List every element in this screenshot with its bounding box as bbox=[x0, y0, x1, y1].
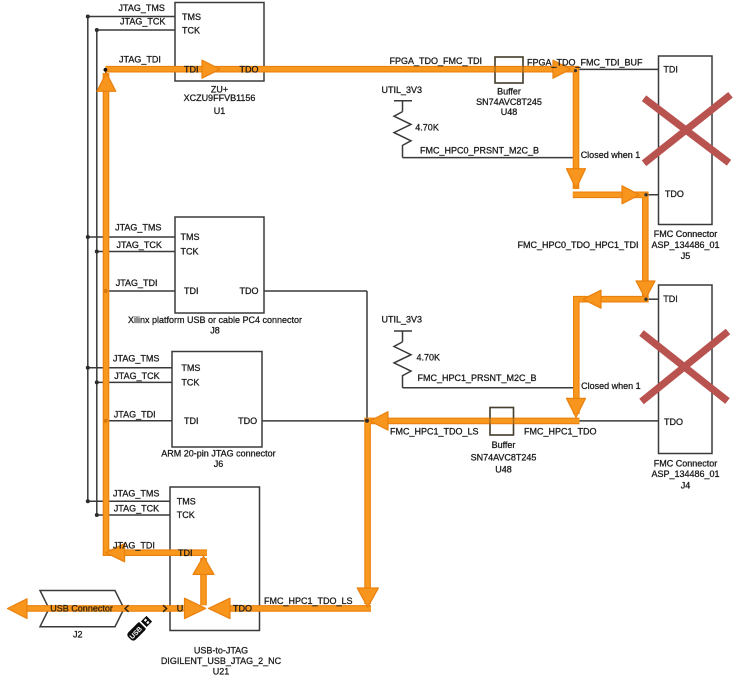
power symbol UTIL_3V3 (top) bbox=[394, 101, 412, 112]
svg-text:UTIL_3V3: UTIL_3V3 bbox=[382, 85, 423, 95]
svg-text:ASP_134486_01: ASP_134486_01 bbox=[651, 469, 719, 479]
node small dots at J5/J4 pin corners bbox=[574, 69, 648, 301]
svg-text:FMC_HPC1_TDO: FMC_HPC1_TDO bbox=[524, 426, 597, 436]
label UTIL_3V3 bottom bbox=[382, 315, 423, 325]
node TCK bus junction dots bbox=[95, 28, 99, 517]
wire JTAG_TMS to J6 bbox=[88, 367, 172, 369]
wire JTAG_TCK to U1 bbox=[97, 29, 175, 31]
arrowhead up at top of JTAG_TDI bus bbox=[97, 73, 116, 92]
svg-text:TDI: TDI bbox=[184, 416, 199, 426]
arrowhead down toward J5 TDO row bbox=[567, 169, 586, 189]
svg-text:U1: U1 bbox=[214, 106, 226, 116]
label FMC_HPC0_TDO_HPC1_TDI bbox=[517, 240, 638, 250]
svg-text:TDI: TDI bbox=[184, 65, 199, 75]
svg-text:FMC_HPC1_PRSNT_M2C_B: FMC_HPC1_PRSNT_M2C_B bbox=[418, 373, 537, 383]
connector J2 USB off-page symbol bbox=[40, 591, 124, 627]
block U21 USB-to-JTAG bbox=[170, 487, 260, 631]
wire FMC_HPC1_PRSNT_M2C_B bbox=[403, 387, 579, 389]
svg-text:TDO: TDO bbox=[664, 417, 683, 427]
node TDI bus junction dots (over orange) bbox=[104, 289, 108, 423]
svg-text:JTAG_TDI: JTAG_TDI bbox=[116, 278, 158, 288]
label buffer U48 bottom caption bbox=[471, 440, 537, 474]
svg-text:TDO: TDO bbox=[233, 604, 252, 614]
arrowhead right from J2 into U21 bbox=[185, 598, 206, 618]
label FMC_HPC1_TDO_LS (mid row) bbox=[390, 426, 479, 436]
wire JTAG_TDI to U1 bbox=[106, 68, 175, 70]
label 4.70K bottom bbox=[417, 353, 441, 363]
svg-text:TDO: TDO bbox=[240, 65, 259, 75]
label JTAG_TCK nets bbox=[114, 17, 166, 514]
block J8 Xilinx platform connector bbox=[175, 217, 264, 313]
svg-text:JTAG_TCK: JTAG_TCK bbox=[117, 240, 162, 250]
svg-text:Closed when 1: Closed when 1 bbox=[581, 381, 641, 391]
svg-text:4.70K: 4.70K bbox=[417, 353, 441, 363]
pin labels J8 bbox=[181, 232, 259, 296]
pin TDI/USB/TDO U21 over orange bbox=[177, 548, 252, 614]
svg-text:TDI: TDI bbox=[184, 286, 199, 296]
icon USB stick bbox=[126, 615, 153, 642]
wire JTAG_TMS bus vertical bbox=[87, 17, 89, 502]
wire J5 TDO stub bbox=[640, 194, 659, 196]
label JTAG_TMS nets bbox=[113, 3, 165, 498]
arrowhead left on J4 TDI row bbox=[583, 290, 601, 308]
label Closed when 1 (bottom) bbox=[581, 381, 641, 391]
node TDI top corner dot bbox=[104, 68, 108, 72]
wire JTAG_TCK to U21 bbox=[97, 514, 170, 516]
svg-text:TMS: TMS bbox=[181, 232, 200, 242]
label J5 caption bbox=[651, 229, 719, 261]
wire JTAG_TMS to U21 bbox=[88, 500, 170, 502]
svg-text:TDO: TDO bbox=[238, 416, 257, 426]
svg-text:JTAG_TMS: JTAG_TMS bbox=[113, 354, 159, 364]
svg-text:J4: J4 bbox=[681, 480, 691, 490]
wire J6 TDO / FMC_HPC1_TDO row to J4 TDO bbox=[262, 420, 659, 422]
buffer U48 top edge overlay bbox=[495, 57, 523, 83]
label UTIL_3V3 top bbox=[382, 85, 423, 95]
svg-text:XCZU9FFVB1156: XCZU9FFVB1156 bbox=[184, 93, 256, 103]
svg-text:TCK: TCK bbox=[177, 510, 195, 520]
svg-text:TMS: TMS bbox=[181, 363, 200, 373]
wire orange bottom row right segment bbox=[230, 605, 372, 612]
label J2 bbox=[73, 630, 83, 640]
arrowhead right into J5 TDO bbox=[622, 186, 639, 204]
label Closed when 1 (top) bbox=[581, 150, 641, 160]
wire J4 TDI stub bbox=[644, 298, 659, 300]
svg-text:Closed when 1: Closed when 1 bbox=[581, 150, 641, 160]
svg-text:FMC_HPC1_TDO_LS: FMC_HPC1_TDO_LS bbox=[264, 596, 353, 606]
wire orange U21 TDI row and long bus up to U1 bbox=[106, 73, 207, 553]
wire orange U1 TDI/TDO row and down at J5 bbox=[106, 69, 577, 189]
buffer U48 top (under highlight) bbox=[495, 57, 523, 83]
block J4 FMC Connector bbox=[659, 285, 713, 454]
svg-text:J2: J2 bbox=[73, 630, 83, 640]
arrowhead down into FMC_HPC1_TDO row bbox=[567, 398, 586, 417]
X mark over J5 bbox=[644, 95, 731, 164]
label J8 caption bbox=[128, 315, 302, 335]
svg-text:JTAG_TCK: JTAG_TCK bbox=[114, 371, 159, 381]
label U21 caption bbox=[161, 645, 282, 676]
svg-text:TCK: TCK bbox=[181, 247, 199, 257]
wire JTAG_TCK bus vertical bbox=[96, 30, 98, 515]
wire JTAG_TCK to J6 bbox=[97, 381, 172, 383]
svg-text:J6: J6 bbox=[214, 459, 224, 469]
svg-text:U48: U48 bbox=[495, 465, 512, 475]
wire JTAG_TDI to U21 bbox=[106, 552, 170, 554]
wire JTAG_TMS to U1 bbox=[88, 16, 175, 18]
block U1 ZU+ XCZU9FFVB1156 bbox=[175, 3, 264, 82]
power symbol UTIL_3V3 (bottom) bbox=[394, 331, 412, 342]
block J6 ARM 20-pin JTAG connector bbox=[172, 352, 262, 448]
svg-text:JTAG_TCK: JTAG_TCK bbox=[120, 17, 165, 27]
svg-text:USB-to-JTAG: USB-to-JTAG bbox=[194, 645, 248, 655]
label FMC_HPC0_PRSNT_M2C_B bbox=[420, 146, 539, 156]
svg-text:TCK: TCK bbox=[182, 25, 200, 35]
buffer U48 bottom edge overlay bbox=[490, 408, 514, 436]
svg-text:J5: J5 bbox=[681, 251, 691, 261]
label 4.70K top bbox=[415, 123, 439, 133]
node TMS bus junction dots bbox=[86, 15, 90, 504]
svg-text:TDO: TDO bbox=[665, 189, 684, 199]
wire orange J5 TDO row and down to J4 bbox=[573, 195, 646, 297]
arrowhead down into J4 TDI row bbox=[636, 281, 655, 299]
svg-text:TDO: TDO bbox=[240, 286, 259, 296]
svg-text:DIGILENT_USB_JTAG_2_NC: DIGILENT_USB_JTAG_2_NC bbox=[161, 656, 282, 666]
svg-text:FMC_HPC1_TDO_LS: FMC_HPC1_TDO_LS bbox=[390, 426, 479, 436]
label FPGA_TDO_FMC_TDI_BUF bbox=[527, 57, 643, 67]
wire JTAG_TDI bus vertical bbox=[105, 69, 107, 553]
pin labels U21 bbox=[177, 496, 196, 520]
label FPGA_TDO_FMC_TDI bbox=[390, 56, 483, 66]
pin labels U1 bbox=[182, 12, 201, 36]
arrowhead left into TDO junction bbox=[370, 412, 388, 430]
wire JTAG_TMS to J8 bbox=[88, 236, 175, 238]
svg-text:SN74AVC8T245: SN74AVC8T245 bbox=[471, 452, 537, 462]
wire orange U21 internal vertical bbox=[200, 558, 207, 605]
svg-text:UTIL_3V3: UTIL_3V3 bbox=[382, 315, 423, 325]
wire JTAG_TDI to J6 bbox=[106, 420, 172, 422]
pin chevron at J2 tip bbox=[125, 605, 129, 612]
svg-text:Buffer: Buffer bbox=[497, 86, 521, 96]
svg-text:ASP_134486_01: ASP_134486_01 bbox=[651, 240, 719, 250]
wire orange J4 TDI row and down to TDO row bbox=[576, 299, 648, 414]
svg-text:JTAG_TDI: JTAG_TDI bbox=[119, 55, 161, 65]
svg-text:JTAG_TMS: JTAG_TMS bbox=[115, 223, 161, 233]
arrowhead down into U21 TDO row bbox=[357, 588, 378, 607]
wire TDO junction vertical bbox=[366, 291, 368, 608]
svg-text:U48: U48 bbox=[501, 107, 518, 117]
resistor 4.70K (bottom) bbox=[394, 342, 411, 388]
resistor 4.70K (top) bbox=[394, 112, 411, 158]
svg-text:TMS: TMS bbox=[182, 12, 201, 22]
arrowhead right at FPGA_TDO_FMC_TDI_BUF corner bbox=[553, 60, 571, 78]
label FMC_HPC1_TDO bbox=[524, 426, 597, 436]
label USB Connector inside J2 bbox=[50, 604, 113, 614]
svg-text:FMC Connector: FMC Connector bbox=[654, 229, 718, 239]
svg-text:SN74AVC8T245: SN74AVC8T245 bbox=[476, 97, 542, 107]
pin labels J5 bbox=[663, 65, 684, 199]
svg-text:Buffer: Buffer bbox=[492, 440, 516, 450]
label J6 caption bbox=[161, 449, 275, 469]
label buffer U48 top caption bbox=[476, 86, 542, 117]
wire orange FMC_HPC1_TDO row leftward and down junction bbox=[368, 421, 580, 604]
arrowhead up inside U21 to TDI bbox=[193, 556, 214, 574]
pin labels J6 bbox=[181, 363, 257, 426]
wire J2 to U21 bottom row bbox=[124, 607, 368, 609]
label JTAG_TDI nets bbox=[113, 55, 161, 551]
wire J8 TDO to TDO junction bbox=[264, 290, 367, 292]
svg-text:U21: U21 bbox=[213, 666, 230, 676]
svg-text:FPGA_TDO_FMC_TDI_BUF: FPGA_TDO_FMC_TDI_BUF bbox=[527, 57, 643, 67]
svg-text:JTAG_TDI: JTAG_TDI bbox=[114, 410, 156, 420]
arrowhead right into U1 TDI bbox=[202, 60, 220, 78]
svg-text:ARM 20-pin JTAG connector: ARM 20-pin JTAG connector bbox=[161, 449, 275, 459]
wire orange bottom row left segment to USB connector bbox=[26, 605, 184, 612]
svg-text:USB Connector: USB Connector bbox=[50, 604, 113, 614]
block J5 FMC Connector bbox=[659, 56, 713, 225]
label FMC_HPC1_TDO_LS (bottom row) bbox=[264, 596, 353, 606]
svg-text:4.70K: 4.70K bbox=[415, 123, 439, 133]
svg-text:JTAG_TCK: JTAG_TCK bbox=[114, 503, 159, 513]
label J4 caption bbox=[651, 459, 719, 491]
svg-text:FMC Connector: FMC Connector bbox=[654, 459, 718, 469]
X mark over J4 bbox=[642, 332, 729, 402]
buffer U48 bottom (under highlight) bbox=[490, 408, 514, 436]
svg-text:TDI: TDI bbox=[663, 65, 678, 75]
svg-text:FMC_HPC0_TDO_HPC1_TDI: FMC_HPC0_TDO_HPC1_TDI bbox=[517, 240, 638, 250]
svg-text:FMC_HPC0_PRSNT_M2C_B: FMC_HPC0_PRSNT_M2C_B bbox=[420, 146, 539, 156]
node TDO junction dot bbox=[365, 419, 369, 423]
arrowhead left into U21 TDO bbox=[209, 598, 230, 618]
wire FMC_HPC0_PRSNT_M2C_B bbox=[403, 157, 580, 159]
pin chevron into U21 bbox=[163, 605, 167, 612]
svg-text:FPGA_TDO_FMC_TDI: FPGA_TDO_FMC_TDI bbox=[390, 56, 483, 66]
pin TDI/TDO U1 over orange bbox=[184, 65, 259, 75]
wire JTAG_TDI to J8 bbox=[106, 290, 175, 292]
pin labels J4 bbox=[663, 294, 683, 427]
svg-text:J8: J8 bbox=[210, 326, 220, 336]
arrowhead left out to J2 USB connector bbox=[8, 599, 28, 619]
wire JTAG_TCK to J8 bbox=[97, 251, 175, 253]
wire U1 TDO to J5 TDI (net FPGA_TDO_FMC_TDI) bbox=[264, 68, 659, 70]
svg-text:JTAG_TMS: JTAG_TMS bbox=[113, 489, 159, 499]
svg-text:Xilinx platform USB or cable P: Xilinx platform USB or cable PC4 connect… bbox=[128, 315, 302, 325]
svg-text:JTAG_TDI: JTAG_TDI bbox=[113, 541, 155, 551]
label FMC_HPC1_PRSNT_M2C_B bbox=[418, 373, 537, 383]
svg-text:TDI: TDI bbox=[663, 294, 678, 304]
svg-text:TCK: TCK bbox=[181, 378, 199, 388]
svg-text:TMS: TMS bbox=[177, 496, 196, 506]
svg-text:TDI: TDI bbox=[178, 548, 193, 558]
svg-text:JTAG_TMS: JTAG_TMS bbox=[119, 3, 165, 13]
arrowhead left on U21 TDI row bbox=[106, 544, 125, 562]
label U1 caption bbox=[184, 84, 256, 116]
